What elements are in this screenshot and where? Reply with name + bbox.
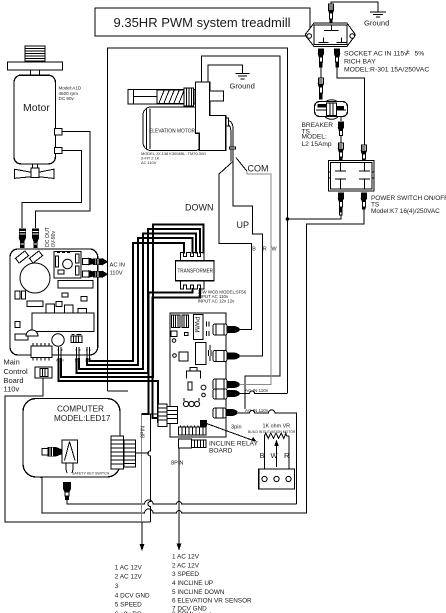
main board long resistor bar	[58, 281, 93, 289]
svg-text:Main: Main	[4, 358, 20, 367]
svg-text:UP: UP	[237, 220, 250, 230]
svg-text:MODEL:LED17: MODEL:LED17	[54, 414, 111, 423]
node AC IN 110V label (board)	[110, 263, 125, 277]
connector socket pin N (below)	[335, 49, 340, 67]
main board small part f	[56, 302, 62, 307]
wire power switch left terminal to enclosure junction	[287, 215, 341, 219]
socket J1 label	[344, 49, 429, 74]
svg-text:5 INCLINE DOWN: 5 INCLINE DOWN	[172, 589, 225, 596]
main board fuse clip 2	[29, 251, 42, 263]
elevation motor end block	[184, 88, 194, 106]
svg-text:DOWN: DOWN	[185, 203, 214, 213]
motor M1 commutator cap	[25, 46, 45, 61]
svg-text:TRANSFORMER: TRANSFORMER	[178, 269, 214, 275]
svg-text:W: W	[271, 451, 278, 460]
incline board bracket part	[187, 368, 201, 379]
svg-text:R: R	[284, 451, 289, 460]
svg-text:110v: 110v	[4, 385, 20, 394]
connector pair switch L out	[338, 193, 343, 215]
wire relay pair4 to enclosure edge	[238, 391, 287, 394]
main board small part h	[78, 309, 87, 314]
transformer T1 top pins	[181, 253, 205, 261]
connector computer 8pin block A	[111, 436, 124, 469]
transformer T1 body	[176, 261, 215, 281]
power switch S1 label	[371, 195, 446, 215]
connector relay pair2 (R)	[213, 351, 239, 362]
svg-text:2 AC 12V: 2 AC 12V	[172, 562, 200, 569]
incline board cap bars 2	[209, 345, 212, 361]
main board relay block	[32, 313, 94, 332]
main board capacitor C1	[20, 263, 50, 293]
incline board small square k	[171, 331, 177, 337]
wire socket to ground (top)	[331, 2, 378, 12]
connector socket pin L (below)	[318, 49, 323, 67]
svg-text:110V: 110V	[110, 271, 123, 277]
svg-text:COM: COM	[248, 164, 269, 174]
main board transistor Q2	[65, 305, 74, 314]
main control board label	[4, 358, 29, 394]
wire left arrow to pin list 1	[141, 522, 143, 549]
wire computer 8pin link	[136, 452, 150, 454]
main board bottom pin pair 1	[58, 347, 63, 358]
incline board 3pin connector	[201, 421, 207, 427]
wire socket L to breaker	[320, 67, 322, 78]
ground (socket)	[364, 12, 389, 27]
motor M1 body	[14, 75, 55, 164]
main board small part d	[81, 297, 87, 302]
svg-text:8PIN: 8PIN	[141, 426, 147, 438]
svg-text:0V-90v: 0V-90v	[51, 230, 57, 247]
svg-text:PWM: PWM	[193, 317, 200, 333]
incline board connector block 2	[182, 315, 189, 328]
connector 110v 2-pin plug	[35, 367, 52, 378]
svg-text:POWER SWITCH ON/OFF: POWER SWITCH ON/OFF	[371, 195, 446, 202]
connector AC IN lower (board right)	[83, 271, 108, 277]
incline board bar p	[188, 382, 192, 390]
connector incline 8pin cable block	[158, 404, 178, 427]
svg-text:Model:K7 16(4)/250VAC: Model:K7 16(4)/250VAC	[371, 208, 440, 215]
elevation motor body	[143, 107, 203, 151]
svg-text:AC IN 110v: AC IN 110v	[245, 388, 269, 393]
svg-text:6 ELEVATION VR SENSOR: 6 ELEVATION VR SENSOR	[172, 598, 252, 605]
incline board cap bars	[207, 322, 210, 337]
wire main board 110v plug to bottom rail	[5, 378, 151, 522]
wire bundle b2	[87, 238, 193, 365]
connector safety key (horizontal bullet)	[42, 448, 62, 457]
VR terminal block	[259, 469, 295, 489]
connector AC IN upper (board right)	[83, 258, 108, 264]
wire elevation gearbox to junction (power line)	[202, 56, 280, 409]
incline board square n	[179, 352, 188, 361]
incline board coil	[183, 398, 199, 407]
svg-text:12V: 12V	[75, 359, 82, 363]
ground (elevation motor)	[230, 74, 255, 91]
connector relay pair5 (AC)	[213, 408, 237, 418]
svg-text:B: B	[260, 451, 265, 460]
main board small part e	[27, 301, 43, 307]
main board bottom pin pair 2	[76, 347, 81, 358]
connector pair breaker out	[338, 122, 343, 136]
wire gray 8PIN computer cable	[141, 415, 143, 523]
svg-text:4600 rpm: 4600 rpm	[59, 91, 79, 96]
svg-text:L2 15Amp: L2 15Amp	[302, 141, 332, 148]
main board small part b	[22, 291, 26, 299]
svg-text:1K ohm VR: 1K ohm VR	[263, 424, 291, 430]
main board small part j	[15, 334, 28, 340]
elevation motor actuator tube	[128, 90, 195, 105]
svg-text:INCLINE RELAY: INCLINE RELAY	[209, 441, 259, 448]
main board small part a	[15, 291, 20, 299]
svg-text:AC 110V: AC 110V	[141, 160, 157, 165]
svg-text:SOCKET AC IN 115v: SOCKET AC IN 115v	[344, 51, 408, 58]
elevation motor value label	[141, 151, 206, 165]
main board transistor Q1	[46, 304, 55, 314]
svg-text:8PIN: 8PIN	[171, 461, 183, 467]
pin list incline board side	[172, 554, 252, 613]
VR wiper arrow	[274, 440, 278, 468]
svg-text:ELEVATION MOTOR: ELEVATION MOTOR	[149, 129, 195, 135]
connector DC OUT right	[33, 229, 39, 248]
wire bundle main board to transformer (b1)	[90, 243, 185, 361]
wire safety key connector to relay pair5 line	[67, 499, 297, 504]
svg-text:Ground: Ground	[230, 82, 255, 91]
connector computer 8pin block B	[124, 440, 136, 467]
svg-text:3pin: 3pin	[231, 425, 242, 431]
main board fuse clip 1	[15, 251, 28, 263]
svg-text:B: B	[252, 247, 256, 253]
svg-text:R: R	[263, 247, 267, 253]
incline board circles q	[201, 385, 206, 390]
power switch S1 body	[329, 160, 375, 191]
svg-text:Model:A1D: Model:A1D	[59, 86, 82, 91]
motor M1 neck	[31, 70, 40, 75]
main control board U1 outline	[10, 249, 98, 355]
svg-text:ACIN: ACIN	[56, 359, 64, 363]
wire bundle b3	[79, 234, 196, 370]
incline board connector block 1	[172, 315, 181, 328]
svg-text:Motor: Motor	[23, 102, 50, 114]
svg-text:INPUT AC 12v 12v: INPUT AC 12v 12v	[198, 298, 236, 303]
svg-text:5 SPEED: 5 SPEED	[115, 602, 142, 609]
breaker CB1 body	[315, 100, 348, 120]
svg-text:COMPUTER: COMPUTER	[57, 405, 104, 414]
svg-text:Control: Control	[4, 367, 29, 376]
svg-text:RICH BAY: RICH BAY	[344, 59, 376, 66]
wire relay pair5 (AC IN) to safety key line	[238, 410, 297, 504]
svg-text:1 AC 12V: 1 AC 12V	[172, 554, 200, 561]
connector relay pair4 (AC)	[213, 389, 239, 399]
incline board bottom header	[179, 426, 207, 436]
main board heatsink block	[54, 252, 81, 279]
computer box outline	[23, 399, 120, 478]
transformer T1 value label	[198, 289, 247, 303]
svg-text:BUILD IN ELEVATION MOTOR: BUILD IN ELEVATION MOTOR	[248, 430, 296, 434]
incline board PWM module	[193, 315, 203, 340]
enclosure box (treadmill frame)	[108, 48, 288, 393]
svg-text:AC IN: AC IN	[110, 263, 125, 269]
breaker CB1 label	[302, 122, 334, 148]
wire COM (elevation connector to W gray line)	[236, 158, 247, 172]
motor M1 terminal 2	[55, 147, 62, 153]
wire bundle b6 to incline 8pin	[59, 358, 166, 422]
svg-text:3: 3	[115, 583, 119, 590]
connector incline 8pin plug	[179, 439, 207, 448]
socket J1 AC inlet plate	[306, 23, 356, 46]
main board bottom pin pair 3	[86, 347, 91, 358]
wire transformer secondary w2	[153, 288, 201, 418]
wire breaker to switch connector	[340, 117, 342, 122]
elevation motor screw hatched section	[157, 90, 184, 103]
wire socket N down to power switch	[337, 67, 364, 145]
resistor VR1 zigzag	[264, 433, 289, 438]
svg-text:4 INCLINE UP: 4 INCLINE UP	[172, 580, 213, 587]
main board pin micro labels	[56, 359, 92, 363]
motor M1 flange	[7, 62, 62, 70]
connector pair switch N out	[361, 193, 366, 209]
svg-text:BOARD: BOARD	[209, 448, 233, 455]
main board capacitor C2	[52, 334, 64, 346]
connector DC OUT left	[19, 229, 25, 248]
wire bottom rail up to incline region	[148, 414, 151, 522]
connector relay pair3 (W)	[213, 379, 239, 390]
wire W (gray) to relay pair3	[238, 171, 271, 384]
VR sensor 1K ohm labels	[248, 424, 296, 434]
incline board circle o	[173, 354, 177, 358]
motor M1 flywheel shaft	[32, 164, 37, 174]
wire bundle b5	[61, 225, 203, 378]
elevation motor gearbox block	[196, 82, 226, 151]
title box	[95, 8, 310, 36]
svg-text:±: ±	[406, 49, 410, 56]
main board small part i	[15, 322, 20, 328]
elevation motor output shaft	[210, 91, 224, 101]
svg-text:MODEL:: MODEL:	[302, 134, 327, 141]
svg-text:2 AC 12V: 2 AC 12V	[115, 574, 143, 581]
incline relay board label	[209, 441, 259, 455]
main board IC U2	[31, 343, 52, 361]
node junction dot	[286, 217, 290, 221]
pin list computer side	[115, 565, 150, 613]
connector socket top (vertical bullet)	[328, 4, 333, 24]
svg-text:SAFETY KEY SWITCH: SAFETY KEY SWITCH	[72, 472, 110, 476]
wire nipple to 3-wire connector	[229, 121, 236, 162]
svg-text:5%: 5%	[415, 51, 425, 58]
connector pair switch L in	[338, 143, 343, 160]
main board small part g	[65, 309, 71, 312]
incline board relay block	[196, 343, 207, 365]
connector relay pair1 (B)	[213, 324, 239, 335]
wire motor terminal 1 to DC OUT right	[36, 132, 91, 229]
svg-text:12V: 12V	[85, 359, 92, 363]
wire DOWN/B to relay pair1	[219, 161, 252, 329]
wire transformer secondary w1	[142, 288, 193, 414]
wire motor terminal 2 to DC OUT left	[22, 151, 81, 229]
elevation motor terminal nipple	[226, 118, 229, 126]
main board connector strip	[71, 335, 82, 343]
motor M1 terminal 1	[55, 129, 62, 135]
connector safety key bottom (vertical bullet pair)	[64, 483, 71, 500]
svg-text:DC 90v: DC 90v	[59, 96, 75, 101]
VR sensor box sides	[264, 436, 289, 469]
wire elevation gearbox to ground	[208, 65, 243, 82]
wire 3pin pointer to VR	[207, 424, 257, 442]
incline relay board U3 outline	[170, 313, 226, 437]
wire UP/R to relay pair2	[233, 161, 263, 356]
incline board bar m	[185, 333, 189, 336]
safety key switch S2	[62, 440, 110, 476]
svg-text:9.35HR PWM system treadmill: 9.35HR PWM system treadmill	[114, 15, 291, 30]
svg-text:AC IN 110v: AC IN 110v	[245, 408, 269, 413]
connector pair socket-breaker	[318, 78, 323, 99]
svg-text:4 DCV GND: 4 DCV GND	[115, 592, 150, 599]
svg-text:MODEL:R-301 15A/250VAC: MODEL:R-301 15A/250VAC	[344, 67, 429, 74]
wire 8PIN incline to pin list 2	[178, 448, 180, 546]
transformer T1 bottom pins	[181, 281, 205, 289]
svg-text:3 SPEED: 3 SPEED	[172, 571, 199, 578]
svg-text:1 AC 12V: 1 AC 12V	[115, 565, 143, 572]
motor M1 flywheel blades	[14, 168, 54, 179]
svg-text:Ground: Ground	[364, 19, 389, 28]
incline board circle l	[172, 339, 176, 343]
motor M1 value label	[59, 86, 82, 102]
main board diode half-moon	[26, 330, 38, 336]
wire power switch right terminal down and around to main board 110v	[40, 209, 364, 513]
connector pair switch N in	[361, 145, 366, 161]
wire bundle b4	[77, 229, 200, 373]
main board small part c	[62, 293, 68, 297]
